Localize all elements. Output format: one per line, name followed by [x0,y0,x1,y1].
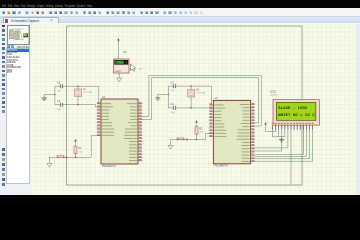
ground LCD [279,138,284,142]
mouse cursor [131,64,136,71]
left panel [7,24,32,195]
wire LCD E [255,130,288,148]
svg-text:32.0: 32.0 [116,62,123,65]
wire LCD power VDD [266,126,276,131]
toolbar row [0,8,360,17]
bottom letterbox black bar [0,195,360,203]
wire R2 stubs [196,124,198,139]
ground caps left [42,97,47,101]
wire LCD D4 [255,130,303,154]
resistor R1 [74,146,83,154]
wire ground branch caps right [158,94,169,96]
svg-text:PIC16F877A: PIC16F877A [214,165,228,168]
crystal X1 [75,89,94,97]
wire MCLR net U3 [171,133,214,143]
crystal X2 [188,90,207,98]
capacitor C1 [57,82,62,92]
wire LCD ground rail [273,130,285,139]
junction dots [54,85,197,158]
svg-text:LM35: LM35 [115,71,121,73]
svg-text:LCD2: LCD2 [270,91,277,93]
LCD pins [272,123,314,130]
resistor R2 [195,127,204,135]
power R1 [75,139,77,143]
svg-text:LM016L: LM016L [270,95,278,97]
sheet border [66,26,302,185]
wire LM35 power [117,42,119,59]
ground reset U3 [168,144,173,149]
power R2 [196,121,198,125]
overview pane [7,25,31,46]
button SW2 [177,138,185,140]
IC U3 PIC16F877A [209,97,255,168]
right scrollbar strip [356,24,360,195]
wire cap link C1-C2 [55,86,60,105]
LM35 U2 [114,51,144,73]
wire LCD D7 [255,130,313,161]
canvas grid [31,24,356,195]
wire OSC2 net U1 [62,105,101,107]
wire I2C SDA [142,78,258,123]
svg-text:CRYSTAL: CRYSTAL [196,92,206,95]
ground LM35 [117,76,122,81]
wire I2C SCL [142,75,261,126]
capacitor C2 [57,101,62,111]
tab bar [0,17,360,25]
wire LCD D6 [255,130,310,159]
svg-text:NHIET DO = 32 C: NHIET DO = 32 C [278,114,315,118]
LCD display LCD2 LM016L [270,91,319,125]
wire LCD RS [255,130,282,151]
wire crystal X1 stubs [77,86,79,105]
device list [6,48,30,184]
capacitor C4 [171,104,176,114]
ground reset U1 [47,162,52,167]
capacitor C3 [171,82,176,92]
svg-text:CRYSTAL: CRYSTAL [83,91,93,94]
canvas with grid [31,24,356,195]
svg-text:PIC16F877A: PIC16F877A [102,165,116,168]
svg-text:SLAVE - LM35: SLAVE - LM35 [278,107,308,111]
wire cap link C3-C4 [168,86,173,108]
ground caps right [155,97,160,101]
left vertical icon strip [0,24,8,195]
wire OSC1 net U1 [62,86,101,104]
wire ground branch caps [44,94,55,96]
wire OSC2 net U3 [176,107,214,109]
wire R1 stubs [75,143,77,157]
wire OSC1 net U3 [176,86,214,105]
power LM35 [117,39,119,43]
wire MCLR net U1 [49,135,101,161]
wire LM35 ground [118,73,120,76]
wire crystal X2 stubs [190,86,192,108]
wire LCD D5 [255,130,307,157]
button SW1 [57,156,65,158]
power LCD [265,123,267,127]
wire LCD D0 down [290,130,292,185]
top letterbox black bar with menu text [0,0,360,8]
IC U1 PIC16F877A [97,96,143,168]
P/L buttons + DEVICES header [7,45,10,48]
